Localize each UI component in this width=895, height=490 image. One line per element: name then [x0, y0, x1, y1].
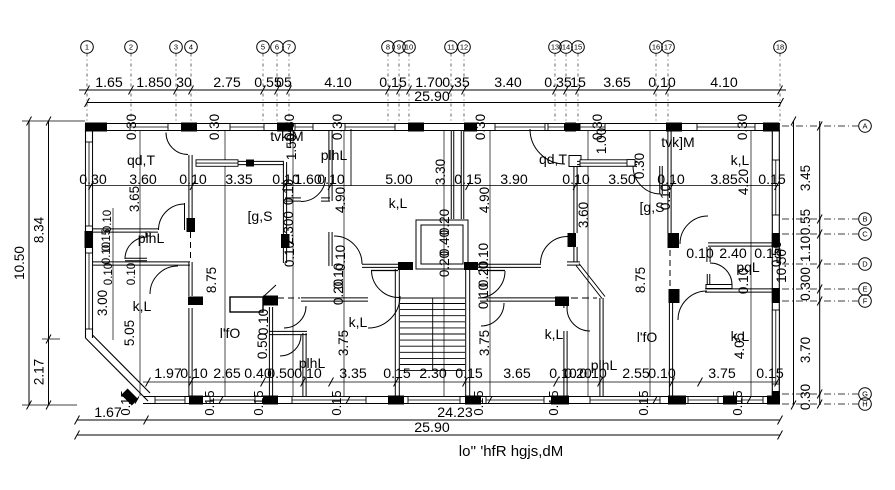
door arc kL bottom-left room — [368, 296, 400, 328]
svg-text:1: 1 — [85, 43, 89, 52]
svg-text:0.15: 0.15 — [118, 390, 133, 415]
wall H4 dashes — [571, 297, 597, 299]
svg-text:B: B — [862, 215, 867, 224]
column H3 left — [398, 262, 413, 270]
column top 2 — [181, 123, 197, 132]
wall H4 left dash — [278, 297, 300, 299]
column top in window — [564, 124, 580, 131]
bath door arc a — [280, 335, 301, 356]
wall V1 lower — [188, 308, 190, 396]
wall V6 upper — [667, 131, 669, 233]
grid bubble 18 — [774, 41, 787, 121]
svg-text:2.55: 2.55 — [622, 366, 650, 382]
svg-text:0.15: 0.15 — [758, 172, 786, 188]
wall Hr bedroom bottom — [708, 242, 772, 244]
extension line x=650 — [649, 131, 651, 396]
door leaf bath right — [706, 285, 732, 289]
svg-text:k,L: k,L — [389, 195, 408, 211]
svg-text:0.10: 0.10 — [281, 179, 296, 205]
right dim line 10.50 — [774, 117, 796, 410]
extension line x=140 — [139, 131, 141, 396]
svg-text:1.97: 1.97 — [154, 366, 182, 382]
grid bubble 16 — [650, 41, 663, 121]
svg-text:9: 9 — [397, 43, 401, 52]
grid bubble F — [782, 295, 871, 308]
wall H1 — [93, 228, 158, 230]
svg-text:3.35: 3.35 — [225, 172, 253, 188]
grid bubble B — [782, 213, 871, 226]
left wall — [85, 124, 87, 338]
svg-text:0.30: 0.30 — [124, 114, 139, 140]
grid bubble E — [782, 283, 871, 296]
svg-text:0.10: 0.10 — [686, 246, 714, 262]
svg-text:16: 16 — [652, 43, 660, 52]
svg-text:lo'' 'hfR hgjs,dM: lo'' 'hfR hgjs,dM — [459, 443, 563, 460]
bottom dim line 1.67 / 24.23 — [75, 405, 783, 425]
svg-text:0.10: 0.10 — [736, 268, 751, 294]
left dim extension lines — [22, 121, 85, 405]
left dim line 10.50 — [12, 117, 31, 410]
column top 7 — [666, 123, 682, 132]
svg-text:5.00: 5.00 — [385, 172, 413, 188]
column V2 — [281, 234, 290, 248]
grid bubble 14 — [560, 41, 573, 121]
svg-text:0.15: 0.15 — [471, 390, 486, 415]
bottom interior chain line — [143, 381, 780, 383]
svg-text:E: E — [862, 285, 867, 294]
column bottom 7 — [723, 396, 737, 405]
door arc lfO right — [567, 308, 590, 331]
svg-text:4.10: 4.10 — [324, 75, 352, 91]
svg-text:6: 6 — [275, 43, 279, 52]
svg-text:3.75: 3.75 — [708, 366, 736, 382]
grid bubble 11 — [445, 41, 458, 121]
column bottom 4 — [465, 396, 481, 405]
svg-text:2: 2 — [129, 43, 133, 52]
svg-text:4.90: 4.90 — [333, 187, 348, 213]
wall V5 upper — [573, 167, 575, 233]
grid bubble 8 — [382, 41, 395, 121]
svg-text:0.10: 0.10 — [562, 172, 590, 188]
grid bubble 15 — [572, 41, 585, 121]
svg-text:0.15: 0.15 — [379, 75, 407, 91]
bottom overall dim line 25.90 — [75, 420, 783, 440]
svg-text:8.75: 8.75 — [204, 267, 219, 293]
door arc H1 — [159, 204, 185, 230]
window top 2 — [230, 124, 264, 131]
svg-text:0.15: 0.15 — [251, 390, 266, 415]
grid bubble A — [782, 120, 871, 133]
column top 3 — [277, 123, 293, 132]
svg-text:3.35: 3.35 — [339, 366, 367, 382]
top overall dimension line 25.90 — [85, 89, 784, 107]
svg-text:0.15: 0.15 — [454, 172, 482, 188]
svg-text:k,L: k,L — [349, 314, 368, 330]
column V6 a — [668, 233, 680, 248]
window top 1 — [130, 124, 168, 131]
grid bubble 13 — [549, 41, 562, 121]
door arc qd right — [541, 237, 568, 264]
svg-text:k,L: k,L — [731, 152, 750, 168]
interior dim chain line — [85, 185, 780, 187]
svg-text:3.60: 3.60 — [576, 202, 591, 228]
svg-text:12: 12 — [460, 43, 468, 52]
svg-text:3.40: 3.40 — [494, 75, 522, 91]
svg-text:3.90: 3.90 — [500, 172, 528, 188]
wall H6 — [93, 261, 158, 263]
svg-text:0.10: 0.10 — [333, 245, 348, 271]
svg-text:2.30: 2.30 — [419, 366, 447, 382]
svg-text:0.30: 0.30 — [798, 384, 813, 410]
extension line x=490 — [489, 131, 491, 396]
column chamfer — [121, 389, 138, 406]
extension line x=588 — [587, 131, 589, 396]
grid bubble 6 — [271, 41, 284, 121]
svg-text:0.10: 0.10 — [476, 283, 491, 309]
door arc kitchen right — [678, 291, 707, 320]
svg-text:14: 14 — [562, 43, 570, 52]
window bottom 7 — [688, 397, 718, 404]
svg-text:0.15: 0.15 — [383, 366, 411, 382]
svg-text:0.20: 0.20 — [331, 279, 346, 305]
grid bubble 1 — [81, 41, 94, 121]
svg-text:0.10: 0.10 — [294, 366, 322, 382]
under-stair diagonal wall — [576, 266, 602, 299]
grid bubble G — [782, 388, 871, 401]
chamfer wall — [86, 338, 149, 401]
grid bubble 17 — [662, 41, 675, 121]
wall H2r window wall — [577, 160, 637, 162]
svg-text:3.65: 3.65 — [603, 75, 631, 91]
svg-text:0.15: 0.15 — [329, 390, 344, 415]
svg-text:k,L: k,L — [133, 298, 152, 314]
wall V5 cap — [567, 261, 580, 263]
grid bubble 10 — [403, 41, 416, 121]
wall H4 left — [301, 297, 368, 299]
svg-text:1.50: 1.50 — [284, 134, 299, 160]
svg-text:0.10: 0.10 — [648, 366, 676, 382]
svg-text:k,L: k,L — [545, 326, 564, 342]
wall Hr2 bath bottom — [705, 288, 775, 290]
svg-text:2.65: 2.65 — [213, 366, 241, 382]
svg-text:25.90: 25.90 — [414, 89, 450, 105]
bottom interior dim texts — [154, 366, 784, 382]
svg-text:0.10: 0.10 — [180, 366, 208, 382]
wall V5 lower seg — [573, 247, 575, 262]
column bottom 2 — [263, 396, 278, 405]
svg-text:1.850: 1.850 — [136, 75, 172, 91]
window right 1 — [772, 160, 779, 215]
svg-text:plhL: plhL — [138, 230, 165, 246]
bath right-mid left wall — [563, 302, 565, 308]
svg-text:24.23: 24.23 — [437, 405, 473, 421]
svg-text:0.10: 0.10 — [282, 241, 297, 267]
wall V8 bath right — [706, 247, 708, 262]
column V5 — [568, 233, 577, 247]
wall V3 upper — [328, 131, 330, 201]
svg-text:0.55: 0.55 — [798, 209, 813, 235]
svg-text:tvk]M: tvk]M — [661, 134, 694, 150]
svg-text:0.10: 0.10 — [103, 263, 115, 285]
svg-text:15: 15 — [574, 43, 582, 52]
door arc qd,T — [166, 133, 188, 155]
grid bubble 4 — [185, 41, 198, 121]
svg-text:0.30: 0.30 — [207, 114, 222, 140]
wall V7 lower right — [599, 298, 601, 396]
svg-text:18: 18 — [776, 43, 784, 52]
door arc corridor right — [633, 166, 661, 194]
svg-text:10: 10 — [405, 43, 413, 52]
svg-text:0.10: 0.10 — [256, 309, 271, 335]
svg-text:H: H — [862, 400, 867, 409]
svg-text:0.10: 0.10 — [102, 210, 114, 232]
svg-text:2.300: 2.300 — [281, 211, 296, 245]
door arc qd right top — [530, 129, 565, 164]
svg-text:11: 11 — [447, 43, 455, 52]
window right 2 — [772, 310, 779, 384]
column bottom 3 — [388, 396, 404, 405]
svg-text:0.300: 0.300 — [798, 267, 813, 301]
svg-text:0.30: 0.30 — [632, 153, 647, 179]
svg-text:0.15: 0.15 — [730, 390, 745, 415]
svg-text:5.05: 5.05 — [122, 320, 137, 346]
svg-text:C: C — [862, 230, 868, 239]
grid bubble 9 — [393, 41, 406, 121]
column right 3 — [772, 391, 780, 404]
top dim line 1 ticks — [85, 86, 783, 95]
column top 5 — [464, 123, 477, 132]
grid bubble 7 — [283, 41, 296, 121]
svg-text:0.30: 0.30 — [735, 114, 750, 140]
wall V1 mid — [188, 262, 190, 296]
svg-text:0.10: 0.10 — [179, 172, 207, 188]
grid bubble 12 — [458, 41, 471, 121]
svg-text:0.10: 0.10 — [648, 75, 676, 91]
wall H3 left — [362, 263, 398, 265]
svg-text:0.15: 0.15 — [455, 366, 483, 382]
door arc bedroom right — [680, 216, 708, 244]
door arc kL right of stairs — [481, 303, 504, 326]
door leaf corridor right — [659, 166, 661, 194]
interior dim chain ticks — [89, 181, 780, 190]
door arc bath right — [710, 263, 732, 285]
interior dim texts row — [79, 172, 786, 188]
svg-text:4.90: 4.90 — [477, 187, 492, 213]
wall V1 dashed door — [190, 232, 192, 262]
extension line x=444 — [443, 131, 445, 396]
column H4 left mirror — [263, 296, 278, 306]
top dimension texts — [95, 75, 738, 91]
svg-text:1.00: 1.00 — [594, 128, 609, 154]
svg-text:0.15: 0.15 — [202, 390, 217, 415]
svg-text:0.10: 0.10 — [317, 172, 345, 188]
svg-text:1.10: 1.10 — [798, 236, 813, 262]
door arc kL room left — [334, 236, 362, 264]
svg-text:2.75: 2.75 — [213, 75, 241, 91]
svg-text:l'fO: l'fO — [637, 329, 658, 345]
column top 1 — [85, 123, 107, 132]
svg-text:3.75: 3.75 — [477, 330, 492, 356]
window bottom 4 — [408, 397, 460, 404]
wall V1 upper — [188, 155, 190, 218]
svg-text:7: 7 — [287, 43, 291, 52]
wall V6 dashed — [669, 250, 671, 289]
wall V3 lower — [328, 232, 330, 266]
door leaf angled left — [263, 285, 276, 297]
svg-text:0.30: 0.30 — [79, 172, 107, 188]
svg-text:plhL: plhL — [321, 147, 348, 163]
window bottom 5 — [486, 397, 544, 404]
svg-text:0.15: 0.15 — [636, 390, 651, 415]
svg-text:3.85: 3.85 — [710, 172, 738, 188]
column top 8 — [763, 123, 779, 132]
svg-text:0.15: 0.15 — [756, 366, 784, 382]
column bottom 1 — [189, 396, 203, 405]
wall stub corridor left — [285, 197, 301, 199]
window bottom 1 — [155, 397, 185, 404]
right dim line segments — [817, 121, 822, 409]
right wall — [771, 124, 773, 404]
svg-text:0.10: 0.10 — [658, 184, 673, 210]
svg-text:4.10: 4.10 — [710, 75, 738, 91]
extension line x=344 — [343, 131, 345, 396]
svg-text:0.10: 0.10 — [126, 263, 138, 285]
window top 8 — [697, 124, 755, 131]
window bottom 3 — [292, 397, 366, 404]
bath plhL right wall — [302, 333, 304, 396]
counter box left — [230, 297, 263, 312]
column V1 a — [187, 218, 196, 232]
window top 4 — [345, 124, 395, 131]
svg-text:13: 13 — [551, 43, 559, 52]
column bottom 8 — [767, 396, 780, 405]
wall V4 party — [450, 131, 452, 219]
window top 5 — [495, 124, 545, 131]
svg-text:qd,T: qd,T — [539, 151, 567, 167]
extension line x=225 — [224, 131, 226, 396]
svg-text:4.20: 4.20 — [736, 169, 751, 195]
svg-text:25.90: 25.90 — [414, 420, 450, 436]
svg-text:0.30: 0.30 — [330, 114, 345, 140]
window left 2 — [86, 253, 93, 329]
svg-text:0.35: 0.35 — [544, 75, 572, 91]
wall V2 — [282, 162, 284, 263]
svg-text:8.75: 8.75 — [633, 267, 648, 293]
svg-text:3.65: 3.65 — [503, 366, 531, 382]
svg-text:0.20: 0.20 — [437, 251, 452, 277]
bottom wall — [143, 396, 780, 398]
column H3 right — [464, 262, 478, 270]
door arc hall left — [150, 266, 178, 294]
grid bubble C — [782, 228, 871, 241]
column top 6 — [565, 123, 576, 132]
svg-text:1.65: 1.65 — [95, 75, 123, 91]
door arc plhL left — [125, 237, 147, 259]
column bottom 6 — [668, 396, 686, 405]
svg-text:3.65: 3.65 — [127, 186, 142, 212]
bath plhL top wall — [269, 330, 307, 332]
svg-text:3.30: 3.30 — [433, 159, 448, 185]
wall H2 window wall — [237, 160, 284, 162]
svg-text:0.50: 0.50 — [267, 366, 295, 382]
jamb line x=351 — [350, 129, 352, 186]
column H4 right — [555, 297, 569, 307]
window top 7 — [580, 124, 605, 131]
top dimension line 1 — [79, 89, 786, 91]
svg-text:3.45: 3.45 — [798, 165, 813, 191]
window top 3 — [295, 124, 313, 131]
bottom interior ticks — [146, 378, 780, 387]
column V6 b — [669, 289, 680, 303]
stair shaft box — [416, 220, 468, 269]
bath plhL left wall — [268, 307, 270, 396]
window left 1 — [86, 142, 93, 226]
window bottom 8 — [742, 397, 763, 404]
svg-text:A: A — [862, 122, 867, 131]
wall H3 right — [478, 263, 541, 265]
svg-text:0.10: 0.10 — [101, 242, 113, 264]
svg-text:15: 15 — [570, 75, 586, 91]
right dim texts — [798, 165, 813, 410]
door leaf qd room — [184, 203, 186, 230]
svg-text:0.15: 0.15 — [546, 390, 561, 415]
svg-text:0.15: 0.15 — [754, 246, 782, 262]
grid bubble D — [782, 258, 871, 271]
svg-text:3.70: 3.70 — [798, 337, 813, 363]
svg-text:l'fO: l'fO — [220, 325, 241, 341]
svg-text:0.10: 0.10 — [579, 366, 607, 382]
stair door arc right — [478, 271, 505, 298]
column bottom 5 — [551, 396, 569, 405]
svg-text:0.30: 0.30 — [473, 114, 488, 140]
left dim line 8.34 / 2.17 — [32, 117, 51, 410]
svg-text:5: 5 — [261, 43, 265, 52]
window cap right corridor — [627, 160, 635, 167]
window top 6 — [548, 124, 581, 131]
svg-text:4: 4 — [189, 43, 193, 52]
door arc corridor left — [301, 177, 326, 202]
svg-text:10.50: 10.50 — [12, 246, 27, 280]
column left 1 — [85, 231, 93, 248]
svg-text:3: 3 — [174, 43, 178, 52]
stairs — [395, 269, 469, 398]
wall V6 lower — [668, 303, 670, 396]
wall H4 right — [480, 297, 555, 299]
svg-text:F: F — [863, 297, 868, 306]
column top 4 — [408, 123, 424, 132]
column V1 b — [188, 297, 203, 306]
window cap left H2r — [569, 156, 581, 167]
window bottom 6 — [590, 397, 660, 404]
svg-text:8: 8 — [386, 43, 390, 52]
svg-text:qd,T: qd,T — [127, 152, 155, 168]
svg-text:05: 05 — [276, 75, 292, 91]
svg-text:[g,S: [g,S — [248, 208, 273, 224]
svg-text:8.34: 8.34 — [32, 216, 47, 243]
grid bubble 3 — [170, 41, 183, 121]
top wall — [85, 123, 780, 125]
window bottom 2 — [210, 397, 255, 404]
extension line x=751 — [750, 131, 752, 396]
grid bubble 5 — [257, 41, 270, 121]
column right 1 — [772, 233, 780, 247]
column right 2 — [772, 288, 780, 303]
stair door arc left — [372, 270, 400, 298]
svg-text:0.50: 0.50 — [255, 333, 270, 359]
svg-text:4.05: 4.05 — [732, 333, 747, 359]
svg-text:D: D — [862, 260, 868, 269]
svg-text:3.60: 3.60 — [129, 172, 157, 188]
